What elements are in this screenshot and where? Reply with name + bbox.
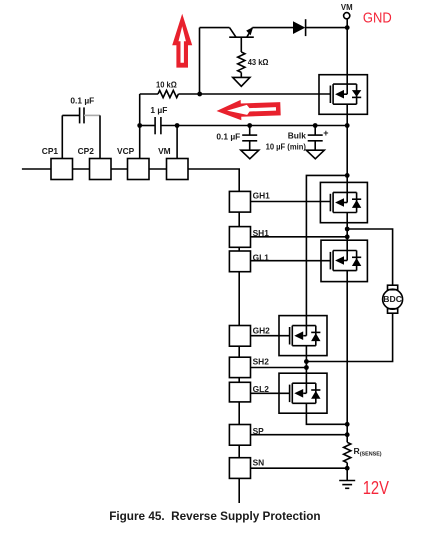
resistor Rsense zigzag <box>344 442 351 462</box>
diode D1 <box>293 19 306 36</box>
node bulk tap <box>313 123 318 128</box>
node junction at VM wire <box>345 25 350 30</box>
wire M5 source to sense node <box>306 413 347 424</box>
capacitor 0.1uF mid with ground <box>241 126 259 159</box>
node phase 1 sh1 <box>345 234 350 239</box>
pin box SN <box>229 458 250 479</box>
pin box GH2 <box>229 326 250 347</box>
mosfet M4 high-side 2 box <box>279 316 327 356</box>
wire top horizontal left segment <box>200 27 230 29</box>
pin box VCP <box>128 159 150 180</box>
capacitor 0.1uF top-left <box>62 107 100 158</box>
node at VM pin riser <box>175 123 180 128</box>
wire SP to sense node <box>251 434 348 436</box>
pin box SP <box>229 425 250 446</box>
svg-text:10 kΩ: 10 kΩ <box>156 79 177 89</box>
wire GL2-SP <box>238 402 240 425</box>
svg-text:10 µF (min): 10 µF (min) <box>266 141 306 151</box>
wire 10k to gate of protection FET <box>178 93 330 95</box>
pin box CP2 <box>90 159 112 180</box>
pin box SH2 <box>229 357 250 377</box>
mosfet M1 symbol <box>330 75 361 115</box>
svg-text:Figure 45. Reverse Supply Pro: Figure 45. Reverse Supply Protection <box>109 509 320 523</box>
wire GL1 gate <box>251 260 331 262</box>
mosfet M5 low-side 2 box <box>279 373 327 413</box>
pin box GL1 <box>229 251 250 272</box>
wire top horizontal right segment <box>252 27 293 29</box>
wire SH1 to phase node <box>251 236 348 238</box>
svg-text:Bulk: Bulk <box>288 131 306 141</box>
wire CP1-CP2 <box>73 168 90 170</box>
wire GH2-SH2 <box>238 346 240 357</box>
wire 43k to ground <box>240 72 242 77</box>
resistor 43k zigzag <box>238 52 245 72</box>
wire 1uF row to supply rail <box>177 125 347 127</box>
wire SP-SN <box>238 445 240 458</box>
wire diode to VM node <box>306 27 348 29</box>
red arrow up <box>172 14 192 68</box>
red arrow left <box>216 99 281 122</box>
node phase 1 bdc <box>345 227 350 232</box>
svg-text:BDC: BDC <box>383 294 402 304</box>
node at VCP riser <box>137 123 142 128</box>
mosfet M1 protection box <box>319 75 367 115</box>
capacitor bulk with ground <box>306 126 324 159</box>
terminal VM circle <box>344 13 350 19</box>
pin box CP1 <box>51 159 73 180</box>
wire GH1 gate <box>251 201 331 203</box>
svg-text:VCP: VCP <box>117 146 135 156</box>
wire rail split left <box>306 175 347 315</box>
wire 10k row <box>140 93 158 95</box>
wire bdc top branch <box>347 229 392 285</box>
ground 12V side <box>339 481 355 489</box>
node phase 2 sh2 <box>304 365 309 370</box>
svg-text:GL2: GL2 <box>253 384 270 394</box>
wire rsense to ground <box>346 463 348 481</box>
wire below SN <box>238 478 240 503</box>
wire bdc bottom branch <box>306 313 392 361</box>
svg-text:43 kΩ: 43 kΩ <box>248 57 269 67</box>
pin box GH1 <box>229 191 250 212</box>
node phase 2 bdc <box>304 359 309 364</box>
svg-text:1 µF: 1 µF <box>150 105 167 115</box>
wire VM box to column corner <box>188 169 239 191</box>
svg-text:VM: VM <box>158 146 171 156</box>
wire VM pin riser <box>176 126 178 159</box>
wire SH2-GL2 <box>238 378 240 383</box>
svg-text:SH2: SH2 <box>253 356 270 366</box>
node rail at 1uF row <box>345 123 350 128</box>
mosfet M2 symbol <box>330 182 361 222</box>
node SN <box>345 466 350 471</box>
wire SN to sense node <box>251 467 348 469</box>
wire VCP-VM <box>149 168 167 170</box>
ground open triangle below 43k <box>233 77 250 86</box>
svg-text:0.1 µF: 0.1 µF <box>70 95 94 105</box>
wire GL2 gate <box>251 392 290 394</box>
svg-text:CP1: CP1 <box>42 146 59 156</box>
capacitor C2 1uF <box>140 117 177 134</box>
transistor Q1 <box>229 27 254 52</box>
wire GH2 gate <box>251 335 290 337</box>
wire left vertical from top to 10k wire <box>199 28 201 94</box>
wire SH2 to phase node 2 <box>251 367 307 369</box>
node junction 10k wire <box>197 92 202 97</box>
mosfet M2 high-side 1 box <box>320 182 367 222</box>
wire M1 source down to rail <box>346 114 348 175</box>
mosfet M4 symbol <box>290 316 321 356</box>
svg-text:R(SENSE): R(SENSE) <box>354 446 382 458</box>
wire M2 drain up <box>346 175 348 182</box>
resistor 10k zigzag <box>158 90 178 97</box>
svg-text:SN: SN <box>253 458 265 468</box>
wire M2 source down <box>346 223 348 241</box>
svg-text:VM: VM <box>341 3 353 12</box>
node sense top <box>345 422 350 427</box>
wire SH1-GL1 <box>238 247 240 251</box>
node SP <box>345 432 350 437</box>
svg-text:GH2: GH2 <box>253 325 271 335</box>
svg-text:+: + <box>323 128 328 138</box>
mosfet M3 symbol <box>330 240 361 281</box>
svg-text:GH1: GH1 <box>253 190 271 200</box>
pin box SH1 <box>229 227 250 248</box>
mosfet M3 low-side 1 box <box>321 240 367 281</box>
wire GH1-SH1 <box>238 212 240 227</box>
node 0.1uF tap <box>247 123 252 128</box>
wire GL1-GH2 <box>238 272 240 326</box>
svg-text:GND: GND <box>363 9 392 26</box>
wire main input left <box>22 168 51 170</box>
wire M3 source down to sense <box>346 282 348 443</box>
wire CP2-VCP <box>111 168 128 170</box>
pin box VM <box>167 159 189 180</box>
svg-text:0.1 µF: 0.1 µF <box>216 132 240 142</box>
svg-text:12V: 12V <box>363 478 389 498</box>
wire M4 source down <box>305 356 307 374</box>
motor BDC <box>383 285 403 313</box>
node rail split <box>345 173 350 178</box>
wire VM circle down <box>346 19 348 75</box>
mosfet M5 symbol <box>290 373 321 413</box>
pin box GL2 <box>229 382 250 402</box>
wire VCP riser <box>139 94 141 159</box>
svg-text:CP2: CP2 <box>78 146 95 156</box>
